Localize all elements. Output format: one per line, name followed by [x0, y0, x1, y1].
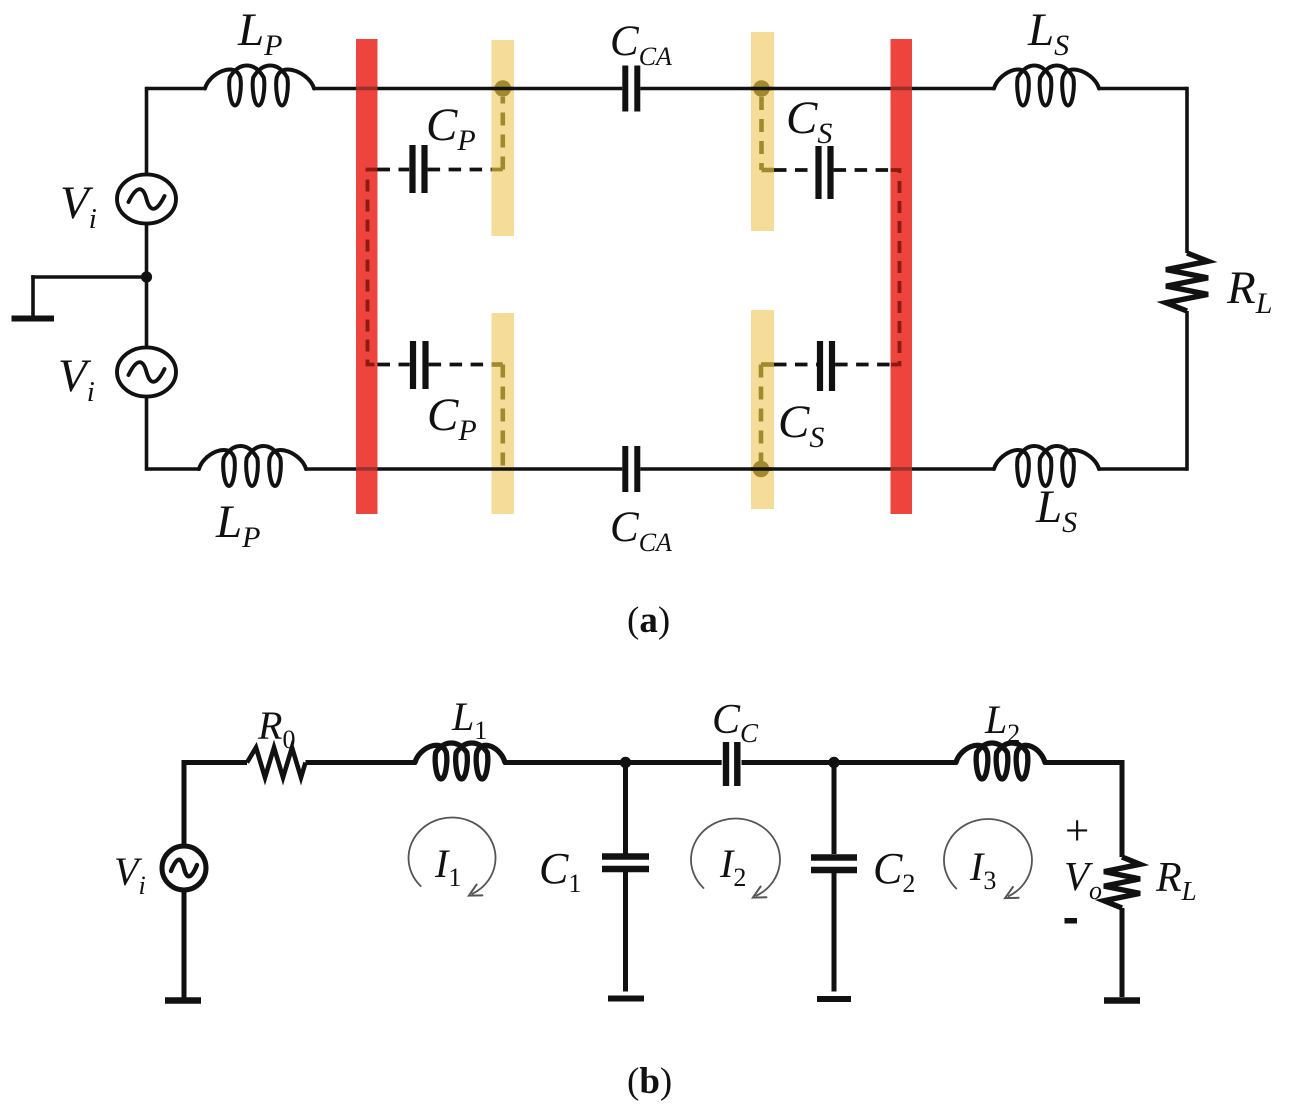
inductor LS top — [994, 66, 1099, 106]
dashed wire CS-to-red bottom-right — [835, 363, 890, 367]
wire top rail middle segment — [314, 87, 622, 91]
node olive dot top-right — [753, 80, 770, 97]
resistor R0 — [247, 748, 306, 778]
capacitor C1 — [602, 853, 649, 860]
wire b top rail to R0 — [184, 760, 247, 765]
svg-text:LP: LP — [237, 4, 282, 62]
dashed wire red-to-CP bottom-left — [378, 363, 410, 367]
capacitor CP bottom-left — [410, 341, 416, 389]
wire b C1 branch — [623, 763, 628, 854]
inductor L2 — [956, 743, 1045, 779]
svg-text:CC: CC — [712, 697, 759, 748]
svg-text:Vi: Vi — [114, 849, 146, 900]
ground wire horizontal — [31, 275, 146, 279]
svg-text:I2: I2 — [719, 841, 746, 892]
wire bottom rail left segment — [147, 467, 200, 471]
dashed wire CP-to-yellow bottom-left — [429, 363, 492, 367]
svg-text:CP: CP — [427, 389, 477, 447]
svg-text:RL: RL — [1155, 855, 1197, 906]
svg-text:R0: R0 — [257, 703, 295, 754]
yellow coupling plate top-left — [492, 40, 515, 236]
wire b CC to node2 — [742, 760, 840, 765]
svg-text:LS: LS — [1027, 4, 1069, 62]
dashed dark-red line right plate — [891, 170, 900, 365]
wire b right vertical lower — [1120, 908, 1125, 997]
svg-text:L1: L1 — [451, 694, 487, 745]
dashed wire CS-to-red top-right — [834, 168, 891, 172]
wire left vertical upper — [145, 87, 149, 175]
capacitor CS bottom-right — [817, 341, 823, 391]
ground bar RL — [1104, 997, 1140, 1004]
node olive dot bottom-right — [753, 461, 770, 478]
svg-text:CCA: CCA — [610, 504, 672, 557]
dashed olive segment top-left — [492, 168, 503, 172]
node 2 dot — [828, 757, 839, 768]
wire b R0 to L1 — [306, 760, 416, 765]
wire b left vertical bottom — [182, 890, 187, 998]
wire b right vertical upper — [1120, 760, 1125, 857]
dashed olive line yellow bottom-left — [500, 365, 505, 470]
svg-text:CP: CP — [426, 99, 476, 157]
wire right vertical upper — [1185, 87, 1189, 253]
wire left vertical middle — [145, 224, 149, 348]
wire right vertical lower — [1185, 311, 1189, 471]
svg-text:CS: CS — [786, 92, 832, 150]
wire bottom rail middle segment — [640, 467, 994, 471]
wire b node2 to L2 — [839, 760, 956, 765]
wire top rail right segment — [1099, 87, 1187, 91]
red transmitter plate (right) — [891, 39, 913, 514]
dashed wire CP-to-yellow top-left — [428, 168, 492, 172]
capacitor CS top-right — [815, 146, 821, 199]
wire b C1 to ground — [623, 872, 628, 992]
inductor LP top — [205, 66, 314, 106]
svg-text:Vi: Vi — [60, 177, 97, 235]
ground stub vertical — [31, 275, 35, 316]
capacitor CCA bottom — [622, 446, 628, 492]
source Vi circuit b — [162, 846, 206, 890]
svg-text:+: + — [1065, 808, 1089, 855]
node olive dot top-left — [495, 80, 512, 97]
svg-text:Vi: Vi — [58, 350, 95, 408]
svg-text:LS: LS — [1035, 481, 1077, 539]
inductor L1 — [415, 743, 505, 779]
svg-text:LP: LP — [215, 496, 260, 554]
node 1 dot — [620, 757, 631, 768]
svg-text:I1: I1 — [434, 841, 461, 892]
red plate overlay crossings — [356, 87, 378, 91]
svg-text:I3: I3 — [969, 844, 996, 895]
capacitor C2 — [811, 854, 857, 861]
dashed dark-red line left plate — [368, 170, 378, 365]
yellow coupling plate bottom-right — [751, 310, 774, 509]
svg-text:(b): (b) — [627, 1061, 672, 1102]
dashed olive line yellow top-left — [500, 97, 505, 170]
ground bar Vi — [165, 997, 201, 1004]
wire b left vertical top — [182, 760, 187, 846]
wire b L2 to corner — [1045, 760, 1125, 765]
wire b node1 to CC — [631, 760, 722, 765]
node junction dot — [141, 271, 152, 282]
dashed wire red-to-CP top-left — [378, 168, 410, 172]
mesh current loop I3 — [944, 819, 1032, 896]
red transmitter plate (left) — [356, 39, 378, 514]
svg-text:Vo: Vo — [1064, 853, 1102, 905]
dashed olive line yellow bottom-right — [759, 365, 764, 466]
resistor RL circuit a — [1166, 253, 1208, 311]
source Vi bottom — [117, 347, 176, 396]
ground bar — [12, 316, 55, 322]
wire b C2 to ground — [832, 873, 837, 992]
resistor RL circuit b — [1104, 857, 1140, 908]
capacitor CCA top — [622, 66, 628, 112]
svg-text:L2: L2 — [984, 697, 1020, 748]
wire b L1 to node1 — [505, 760, 631, 765]
wire b C2 branch — [832, 763, 837, 855]
yellow coupling plate top-right — [751, 32, 774, 231]
svg-text:CS: CS — [778, 396, 824, 454]
capacitor CP top-left — [409, 145, 415, 193]
yellow coupling plate bottom-left — [492, 313, 515, 514]
svg-text:(a): (a) — [627, 600, 670, 641]
inductor LS bottom — [994, 446, 1099, 486]
wire bottom rail left-middle segment — [306, 467, 622, 471]
source Vi top — [117, 174, 176, 223]
inductor LP bottom — [199, 446, 306, 486]
wire bottom rail right segment — [1099, 467, 1187, 471]
ground bar C2 — [817, 996, 851, 1002]
svg-text:CCA: CCA — [610, 18, 672, 71]
dashed wire yellow-to-CS top-right — [774, 168, 815, 172]
wire top rail right-middle segment — [640, 87, 994, 91]
wire top rail left segment — [147, 87, 206, 91]
dashed wire yellow-to-CS bottom-right — [774, 363, 817, 367]
dashed olive line yellow top-right — [759, 97, 764, 170]
mesh current loop I1 — [409, 818, 496, 894]
ground bar C1 — [608, 996, 644, 1002]
svg-text:C1: C1 — [539, 844, 581, 898]
label - polarity — [1065, 918, 1078, 924]
svg-text:RL: RL — [1226, 262, 1272, 320]
mesh current loop I2 — [691, 819, 780, 896]
wire left vertical lower — [145, 397, 149, 471]
svg-text:C2: C2 — [873, 844, 915, 898]
capacitor CC — [723, 742, 729, 786]
